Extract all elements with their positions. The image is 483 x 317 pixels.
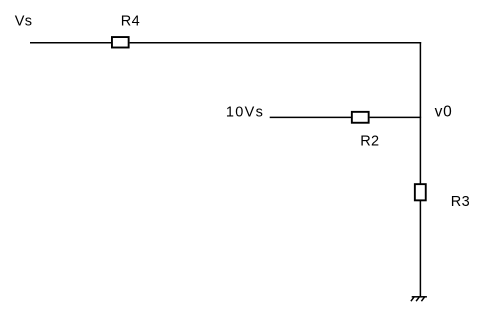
wire 10Vs to R2	[270, 116, 352, 118]
resistor R3	[415, 184, 426, 200]
svg-text:Vs: Vs	[15, 13, 33, 29]
wire Vs to R4	[30, 42, 112, 44]
wire R2 to node v0	[370, 116, 422, 118]
svg-text:R3: R3	[451, 194, 470, 210]
wire node v0 down to R3	[419, 117, 421, 184]
wire R3 to ground	[419, 201, 421, 297]
svg-text:R2: R2	[360, 134, 379, 150]
resistor R2	[352, 112, 369, 123]
ground	[411, 297, 427, 301]
wire corner down to node v0	[419, 42, 421, 117]
resistor R4	[112, 37, 129, 47]
svg-text:v0: v0	[435, 103, 453, 120]
svg-text:10Vs: 10Vs	[226, 105, 264, 121]
wire R4 to top-right corner	[130, 42, 422, 44]
svg-text:R4: R4	[121, 14, 140, 30]
